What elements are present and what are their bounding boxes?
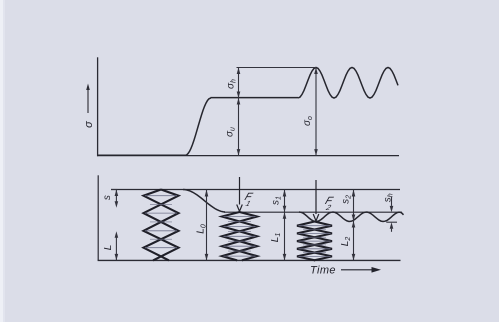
L label <box>103 245 114 251</box>
svg-text:L: L <box>103 245 114 251</box>
spring 1 (free length) zigzag A <box>144 190 179 261</box>
svg-text:σ: σ <box>83 121 95 128</box>
spring 3 faint coil backlines <box>299 226 331 257</box>
L2 dimension <box>352 221 356 260</box>
s2 dimension <box>352 190 356 222</box>
s label <box>102 195 113 200</box>
F2 force arrow <box>313 180 319 221</box>
L dimension (open) <box>115 231 119 260</box>
stress axis (vertical) <box>97 57 99 156</box>
svg-text:Time: Time <box>310 265 336 277</box>
L1 dimension <box>283 212 287 260</box>
s1 label <box>270 196 282 205</box>
s dimension (open) <box>111 190 118 208</box>
L1 level reference line <box>224 211 402 213</box>
spring 3 (under F2) zigzag A <box>297 222 332 261</box>
spring 2 zigzag B <box>222 212 257 260</box>
sigma_h label <box>226 79 238 89</box>
deflection curve: descent S <box>183 190 225 213</box>
time baseline (top plot) <box>97 155 399 157</box>
sigma_o label <box>302 116 314 126</box>
stress curve: flat at baseline <box>98 154 185 156</box>
sigma_u dimension line <box>237 98 241 156</box>
sigma axis arrow <box>86 84 90 114</box>
stress curve: plateau at sigma_u <box>211 97 299 99</box>
stress curve: first rise S <box>185 98 211 155</box>
sh stroke tick line at trough level <box>386 221 397 223</box>
L2 label <box>340 237 352 247</box>
spring 2 faint coil backlines <box>224 217 256 257</box>
stress curve: oscillation <box>298 68 398 99</box>
deflection wave under F2 <box>299 212 404 222</box>
spring 1 faint coil backlines <box>145 196 177 248</box>
spring 2 (under F1) zigzag A <box>222 212 257 260</box>
sh dimension (arrows outside) <box>390 197 394 232</box>
left page edge highlight <box>0 0 3 322</box>
s1 dimension <box>283 190 287 213</box>
L0 label <box>196 224 208 234</box>
spring 1 zigzag B <box>144 190 179 261</box>
spring 3 zigzag B <box>297 222 332 261</box>
F1 label <box>241 191 255 208</box>
sh label <box>383 193 395 202</box>
Time arrow <box>341 267 381 273</box>
bottom seat line <box>98 259 401 261</box>
free length top reference line <box>111 189 400 191</box>
sigma_o top reference line <box>237 67 317 69</box>
s2 label <box>340 195 352 204</box>
sigma_u label <box>224 127 236 137</box>
sigma_h dimension line <box>237 68 241 99</box>
svg-text:s: s <box>102 195 113 200</box>
L1 label <box>270 233 282 243</box>
F1 force arrow <box>237 177 243 211</box>
sigma_o dimension line <box>314 68 318 156</box>
bottom section left boundary line <box>97 175 99 260</box>
F2 label <box>322 195 336 212</box>
L0 dimension line <box>205 190 209 261</box>
